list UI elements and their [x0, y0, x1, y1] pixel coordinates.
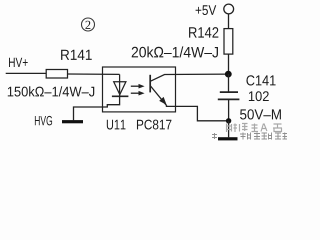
- label 102: [249, 91, 269, 101]
- wire R141 to U11: [68, 73, 120, 75]
- wire R142 to junction: [228, 54, 230, 74]
- watermark row 2: [212, 133, 287, 140]
- LED triangle: [114, 82, 126, 95]
- junction node B: [226, 118, 231, 123]
- watermark row 1: [227, 124, 283, 133]
- node 2 circled marker: [82, 18, 95, 31]
- label 20kΩ-1/4W-J: [132, 46, 218, 57]
- label HV+: [9, 58, 28, 67]
- wire LED cathode to HVG ground: [74, 96, 120, 120]
- transistor emitter with arrow: [151, 86, 167, 106]
- ground HVG bar: [62, 120, 83, 123]
- label R141: [61, 50, 92, 60]
- light emission arrow lower: [131, 91, 145, 96]
- label C141: [246, 75, 275, 85]
- wire C141 to ground junction: [228, 99, 230, 120]
- capacitor C141 bottom plate: [218, 98, 240, 100]
- wire HV+ to R141: [6, 72, 47, 74]
- op-amp U11 optocoupler box: [103, 67, 176, 112]
- label U11: [107, 120, 126, 130]
- light emission arrow upper: [131, 84, 145, 89]
- label 50V-M: [240, 109, 281, 119]
- resistor R141: [46, 70, 67, 79]
- label +5V: [196, 5, 217, 15]
- terminal circle +5V: [224, 4, 234, 14]
- wire junction to ground: [228, 121, 230, 138]
- ground bottom right bar: [218, 137, 238, 140]
- resistor R142: [224, 29, 233, 54]
- junction node A: [225, 71, 232, 78]
- LED anode lead: [119, 74, 121, 96]
- wire emitter to ground junction: [166, 106, 229, 120]
- wire +5V to R142: [228, 14, 230, 29]
- label R142: [189, 27, 218, 37]
- LED cathode bar: [112, 95, 128, 97]
- capacitor C141 top plate: [220, 91, 238, 93]
- label 150kΩ-1/4W-J: [8, 86, 94, 96]
- label HVG: [35, 116, 52, 126]
- wire junction to C141: [228, 74, 230, 92]
- transistor collector wire to junction: [151, 74, 229, 81]
- transistor Q base bar: [149, 75, 151, 93]
- label PC817: [137, 120, 171, 130]
